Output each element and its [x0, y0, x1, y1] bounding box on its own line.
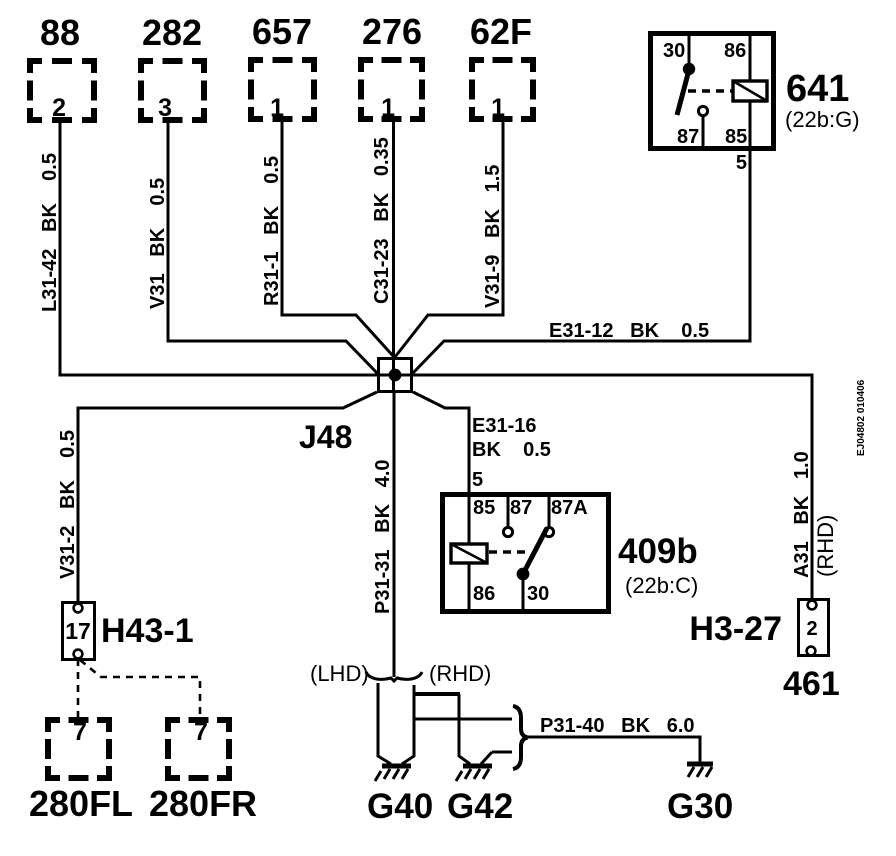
svg-text:1: 1: [270, 94, 284, 122]
svg-text:7: 7: [73, 718, 87, 746]
relay 409b pin 85/86 coil wire: [468, 497, 471, 609]
ground G42: [447, 766, 513, 826]
svg-text:1: 1: [381, 94, 395, 122]
relay 641 switch blade: [677, 70, 689, 115]
svg-text:7: 7: [194, 718, 208, 746]
svg-text:30: 30: [527, 583, 549, 605]
svg-text:282: 282: [142, 12, 202, 53]
svg-text:C31-23 BK 0.35: C31-23 BK 0.35: [371, 137, 393, 304]
svg-text:G40: G40: [367, 787, 433, 826]
svg-text:(RHD): (RHD): [429, 661, 491, 686]
svg-text:E31-12 BK 0.5: E31-12 BK 0.5: [549, 320, 709, 342]
wire A31 from J48 to H3-27: [413, 375, 838, 601]
svg-text:85: 85: [473, 497, 495, 519]
wire E31-12 from relay 641 to J48: [413, 148, 750, 373]
wire LHD branch to G40: [378, 683, 391, 764]
relay 641 pin 85 wire: [749, 101, 752, 148]
relay 409b actuator dashed link: [489, 550, 528, 553]
svg-text:5: 5: [472, 469, 483, 491]
svg-text:280FL: 280FL: [29, 783, 133, 824]
svg-text:J48: J48: [299, 419, 352, 455]
svg-text:(LHD): (LHD): [310, 661, 369, 686]
svg-text:G42: G42: [447, 787, 513, 826]
svg-text:(RHD): (RHD): [813, 515, 838, 577]
svg-text:87: 87: [677, 126, 699, 148]
svg-text:1: 1: [491, 94, 505, 122]
svg-text:R31-1 BK 0.5: R31-1 BK 0.5: [261, 156, 283, 306]
svg-text:H3-27: H3-27: [689, 610, 782, 648]
wire P31-31 from J48 to ground split: [372, 393, 394, 677]
wire E31-16 from J48 to relay 409b: [413, 392, 551, 492]
svg-text:(22b:G): (22b:G): [785, 107, 860, 132]
relay 641 pin 86 wire: [749, 36, 752, 81]
svg-text:86: 86: [724, 40, 746, 62]
svg-text:2: 2: [806, 618, 817, 640]
svg-text:62F: 62F: [470, 11, 532, 52]
relay 409b pin 30 contact: [522, 576, 525, 609]
wire V31-9 from 62F to J48: [395, 122, 504, 357]
svg-text:461: 461: [783, 665, 840, 703]
junction J48: [299, 359, 412, 456]
ground split LHD/RHD: [310, 661, 491, 686]
connector 657: [251, 11, 314, 122]
connector 276: [361, 11, 422, 122]
svg-text:H43-1: H43-1: [101, 612, 194, 650]
svg-text:L31-42 BK 0.5: L31-42 BK 0.5: [39, 153, 61, 312]
relay 409b switch blade: [523, 528, 547, 574]
relay 641 actuator dashed link: [688, 89, 733, 92]
relay 409b coil: [451, 544, 487, 563]
svg-text:G30: G30: [667, 787, 733, 826]
svg-text:E31-16: E31-16: [472, 415, 537, 437]
svg-text:276: 276: [362, 11, 422, 52]
connector 62F: [470, 11, 533, 122]
svg-text:P31-31 BK 4.0: P31-31 BK 4.0: [372, 459, 394, 614]
connector H3-27: [689, 600, 839, 704]
svg-text:409b: 409b: [618, 532, 698, 571]
wire R31-1 from 657 to J48: [261, 122, 394, 357]
svg-text:P31-40 BK 6.0: P31-40 BK 6.0: [540, 715, 695, 737]
wire V31 from 282 to J48: [147, 123, 378, 374]
relay 641 pin 30 contact: [688, 36, 691, 66]
wire C31-23 from 276 to J48: [371, 122, 394, 393]
dashed wire H43-1 to 280FR: [80, 660, 200, 717]
svg-text:V31-2 BK 0.5: V31-2 BK 0.5: [57, 430, 79, 579]
svg-text:3: 3: [158, 94, 172, 122]
svg-text:(22b:C): (22b:C): [625, 573, 698, 598]
ground G40: [367, 766, 433, 826]
wire V31-2 from J48 to H43-1: [57, 392, 377, 602]
ground G30: [667, 764, 733, 826]
connector 280FR: [149, 718, 257, 824]
svg-text:BK 0.5: BK 0.5: [472, 439, 551, 461]
brace grouping grounds: [513, 706, 528, 769]
connector 280FL: [29, 718, 133, 824]
svg-text:V31-9 BK 1.5: V31-9 BK 1.5: [482, 165, 504, 308]
svg-text:657: 657: [252, 11, 312, 52]
wire G42 right lead: [481, 752, 512, 764]
svg-text:87: 87: [510, 497, 532, 519]
relay 409b: [443, 495, 699, 612]
svg-text:17: 17: [65, 618, 91, 644]
relay 641 coil: [733, 81, 767, 101]
wire P31-40 to G30: [528, 715, 700, 762]
svg-text:2: 2: [52, 94, 66, 122]
wire L31-42 from 88 to J48: [39, 123, 413, 375]
svg-text:EJ04802 010406: EJ04802 010406: [856, 379, 867, 456]
svg-text:88: 88: [40, 12, 80, 53]
svg-text:V31 BK 0.5: V31 BK 0.5: [147, 178, 169, 309]
connector 88: [30, 12, 94, 122]
svg-text:87A: 87A: [551, 497, 588, 519]
relay 409b pin 87 contact: [507, 497, 510, 527]
svg-text:86: 86: [473, 583, 495, 605]
relay 641: [651, 34, 860, 175]
svg-text:85: 85: [725, 126, 747, 148]
wire common to brace: [413, 718, 512, 721]
svg-text:30: 30: [663, 40, 685, 62]
relay 641 pin 87 contact: [698, 106, 707, 115]
connector 282: [141, 12, 204, 122]
connector H43-1: [63, 603, 194, 660]
wire RHD branch: [402, 685, 414, 764]
dashed wire H43-1 to 280FL: [77, 659, 80, 717]
wire RHD to G42 (thick): [414, 692, 460, 696]
svg-text:5: 5: [736, 152, 747, 174]
svg-text:280FR: 280FR: [149, 783, 257, 824]
svg-text:A31 BK 1.0: A31 BK 1.0: [791, 451, 813, 578]
relay 409b pin 87A contact: [548, 497, 551, 526]
svg-text:641: 641: [786, 68, 849, 110]
